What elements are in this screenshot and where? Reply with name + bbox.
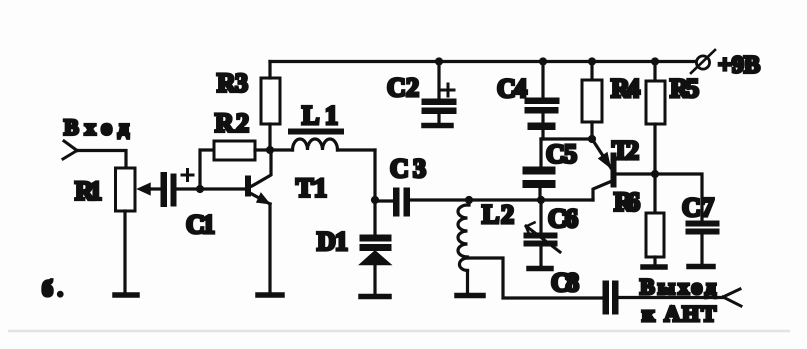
- input terminal arrow: [63, 141, 77, 159]
- node R5 rail: [651, 57, 659, 65]
- svg-text:R5: R5: [670, 74, 699, 103]
- svg-text:L1: L1: [302, 101, 338, 130]
- label L1: [302, 101, 338, 130]
- node L2 top: [465, 196, 473, 204]
- node collector: [266, 146, 274, 154]
- capacitor C3: [375, 188, 593, 216]
- supply terminal +9V: [691, 50, 715, 73]
- output terminal arrow: [723, 289, 741, 306]
- plus sign C2: [442, 84, 454, 96]
- svg-text:C3: C3: [390, 154, 426, 183]
- svg-text:L2: L2: [482, 200, 514, 229]
- svg-text:R3: R3: [217, 69, 248, 98]
- node tank left: [371, 196, 379, 204]
- node R4 rail: [588, 57, 596, 65]
- label R4: [611, 74, 640, 103]
- label +9В: [718, 53, 762, 79]
- svg-text:C1: C1: [186, 210, 215, 239]
- label Выход: [640, 274, 716, 299]
- ground (R6): [643, 264, 665, 270]
- node C2 rail: [435, 57, 443, 65]
- wire L1 down to tank node: [373, 150, 376, 200]
- resistor R5: [646, 62, 665, 175]
- transistor T2: [592, 139, 655, 200]
- resistor R1: [116, 168, 136, 211]
- label T2: [612, 136, 639, 165]
- wire R3 top to rail: [268, 62, 271, 79]
- label C5: [546, 140, 577, 169]
- node C4 rail: [539, 57, 547, 65]
- label C4: [497, 74, 527, 103]
- capacitor C4: [525, 62, 559, 140]
- svg-text:C8: C8: [551, 268, 579, 297]
- node base T1: [196, 185, 204, 193]
- label R2: [215, 109, 249, 138]
- svg-text:R2: R2: [215, 109, 249, 138]
- svg-text:T2: T2: [612, 136, 639, 165]
- wire R1 to ground: [123, 211, 126, 293]
- label C7: [682, 193, 714, 222]
- ground (C6): [529, 266, 551, 272]
- ground (T1): [258, 292, 282, 298]
- svg-text:к АНТ: к АНТ: [642, 301, 716, 326]
- label R5: [670, 74, 699, 103]
- svg-text:+9В: +9В: [718, 53, 762, 79]
- svg-text:C6: C6: [548, 204, 578, 233]
- capacitor C5: [523, 139, 555, 200]
- plus sign C1: [182, 170, 193, 181]
- supply rail wire: [270, 60, 697, 63]
- label к АНТ: [642, 301, 716, 326]
- node base T2: [651, 170, 659, 178]
- label R6: [614, 188, 640, 217]
- resistor R2: [214, 141, 255, 160]
- label C8: [551, 268, 579, 297]
- label R1: [75, 177, 102, 206]
- svg-text:C4: C4: [497, 74, 527, 103]
- node tank C5/C6: [537, 196, 545, 204]
- ground (C7): [689, 264, 713, 270]
- resistor R4: [582, 62, 602, 140]
- inductor L1: [270, 132, 375, 151]
- wire L2 tap to output: [468, 258, 602, 298]
- ground (C2): [424, 123, 451, 129]
- wire R3 bottom: [268, 124, 271, 150]
- label б.: [42, 276, 63, 301]
- trimmer capacitor C6: [524, 200, 560, 266]
- resistor R6: [646, 174, 664, 264]
- label C3: [390, 154, 426, 183]
- R1 wiper arrow: [138, 184, 161, 195]
- label C6: [548, 204, 578, 233]
- wire C4/C5 to emitter node: [541, 137, 592, 140]
- wire input to R1: [77, 151, 126, 169]
- wire R2 to collector node: [255, 148, 270, 151]
- resistor R3: [261, 78, 280, 124]
- svg-text:R6: R6: [614, 188, 640, 217]
- capacitor C2: [422, 62, 456, 124]
- svg-text:D1: D1: [317, 227, 348, 256]
- svg-text:б.: б.: [42, 276, 63, 301]
- svg-text:Выход: Выход: [640, 274, 716, 299]
- label Вход: [64, 115, 129, 140]
- svg-text:C2: C2: [387, 73, 419, 102]
- node emitter T2: [588, 135, 596, 143]
- label C2: [387, 73, 419, 102]
- svg-text:C7: C7: [682, 193, 714, 222]
- label R3: [217, 69, 248, 98]
- transistor T1: [203, 150, 271, 204]
- capacitor C1: [161, 173, 176, 207]
- inductor L2: [458, 200, 469, 293]
- varicap D1: [360, 200, 391, 294]
- svg-text:R1: R1: [75, 177, 102, 206]
- label C1: [186, 210, 215, 239]
- capacitor C8: [603, 281, 723, 314]
- ground (D1): [361, 294, 389, 300]
- label L2: [482, 200, 514, 229]
- ground (L2): [457, 293, 483, 299]
- label T1: [296, 174, 327, 203]
- wire T1 emitter to ground: [268, 204, 271, 293]
- svg-text:C5: C5: [546, 140, 577, 169]
- wire node up to R2: [200, 150, 214, 189]
- svg-text:R4: R4: [611, 74, 640, 103]
- capacitor C7: [655, 174, 719, 263]
- ground (R1): [115, 292, 137, 298]
- svg-text:T1: T1: [296, 174, 327, 203]
- wire C1 to base node: [176, 187, 200, 190]
- svg-text:Вход: Вход: [64, 115, 129, 140]
- label D1: [317, 227, 348, 256]
